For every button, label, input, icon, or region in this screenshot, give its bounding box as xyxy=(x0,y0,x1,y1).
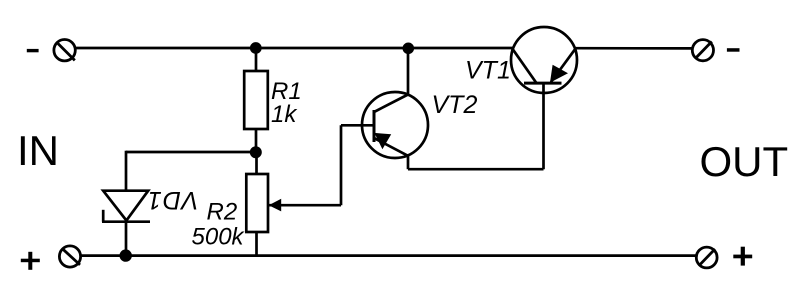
svg-text:R2: R2 xyxy=(207,199,238,226)
svg-text:VT1: VT1 xyxy=(465,57,511,85)
svg-text:1k: 1k xyxy=(271,101,298,128)
svg-text:IN: IN xyxy=(17,127,59,174)
svg-text:500k: 500k xyxy=(192,224,246,251)
svg-text:VD1: VD1 xyxy=(147,186,199,214)
svg-text:VT2: VT2 xyxy=(432,91,478,119)
svg-text:OUT: OUT xyxy=(700,138,789,185)
